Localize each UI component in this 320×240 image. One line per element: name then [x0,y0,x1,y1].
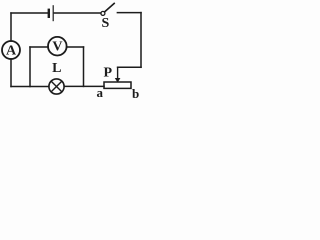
rheostat slider arrow shaft [117,67,119,79]
svg-text:b: b [132,86,139,101]
svg-text:S: S [102,16,110,31]
voltmeter V circle [48,37,67,56]
switch S pivot [101,11,105,15]
wire left vertical upper [10,13,12,41]
lamp L cross stroke 2 [51,81,62,92]
wire voltmeter branch left vertical [29,47,31,87]
battery cell short negative plate [48,10,50,17]
wire bottom-left segment [11,86,49,88]
wire top-right segment [117,12,141,14]
svg-text:L: L [52,61,61,76]
lamp L bulb circle [49,79,64,94]
ammeter A circle [2,41,20,59]
wire to rheostat slider [118,66,141,68]
rheostat slider arrowhead [115,78,121,83]
lamp L cross stroke 1 [51,81,62,92]
wire bottom segment lamp to rheostat terminal a [64,85,104,87]
wire top-left segment [11,12,48,14]
wire voltmeter branch right horizontal [67,46,84,48]
wire top-middle segment battery to switch [54,12,101,14]
battery cell long positive plate [52,6,54,21]
svg-text:V: V [52,39,62,54]
rheostat R resistive track [104,82,131,88]
svg-text:A: A [6,44,17,59]
svg-text:P: P [104,65,113,80]
wire voltmeter branch left horizontal [30,46,48,48]
wire voltmeter branch right vertical [83,47,85,86]
svg-text:a: a [97,85,104,100]
wire right vertical [140,13,142,68]
wire left vertical lower [10,59,12,87]
switch S blade (open) [105,3,115,12]
